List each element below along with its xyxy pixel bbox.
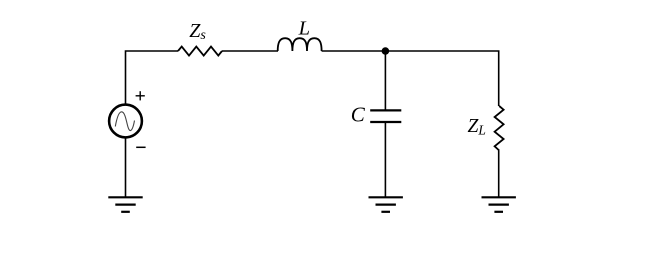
ground under source	[108, 197, 142, 212]
svg-text:L: L	[298, 18, 310, 40]
svg-text:Zs: Zs	[189, 20, 206, 43]
resistor ZL	[495, 106, 504, 151]
wire between Zs and L	[222, 50, 278, 52]
wire node to ZL corner	[385, 51, 498, 106]
wire node to capacitor	[384, 51, 386, 110]
wire source to ground	[125, 137, 127, 197]
capacitor C	[370, 110, 401, 122]
inductor L	[278, 38, 322, 51]
node junction dot	[382, 47, 390, 55]
svg-text:ZL: ZL	[468, 116, 486, 137]
sine wave inside source	[115, 112, 134, 131]
svg-text:C: C	[351, 102, 366, 126]
wire ZL to ground	[498, 151, 500, 198]
minus polarity label	[136, 146, 145, 148]
ground under capacitor	[369, 197, 403, 212]
wire between L and node	[322, 50, 386, 52]
resistor Zs	[178, 47, 222, 56]
wire top-left segment	[126, 51, 179, 104]
wire capacitor to ground	[384, 122, 386, 197]
ground under ZL	[482, 197, 516, 212]
voltage source V1	[109, 105, 142, 138]
plus polarity label	[136, 91, 145, 100]
